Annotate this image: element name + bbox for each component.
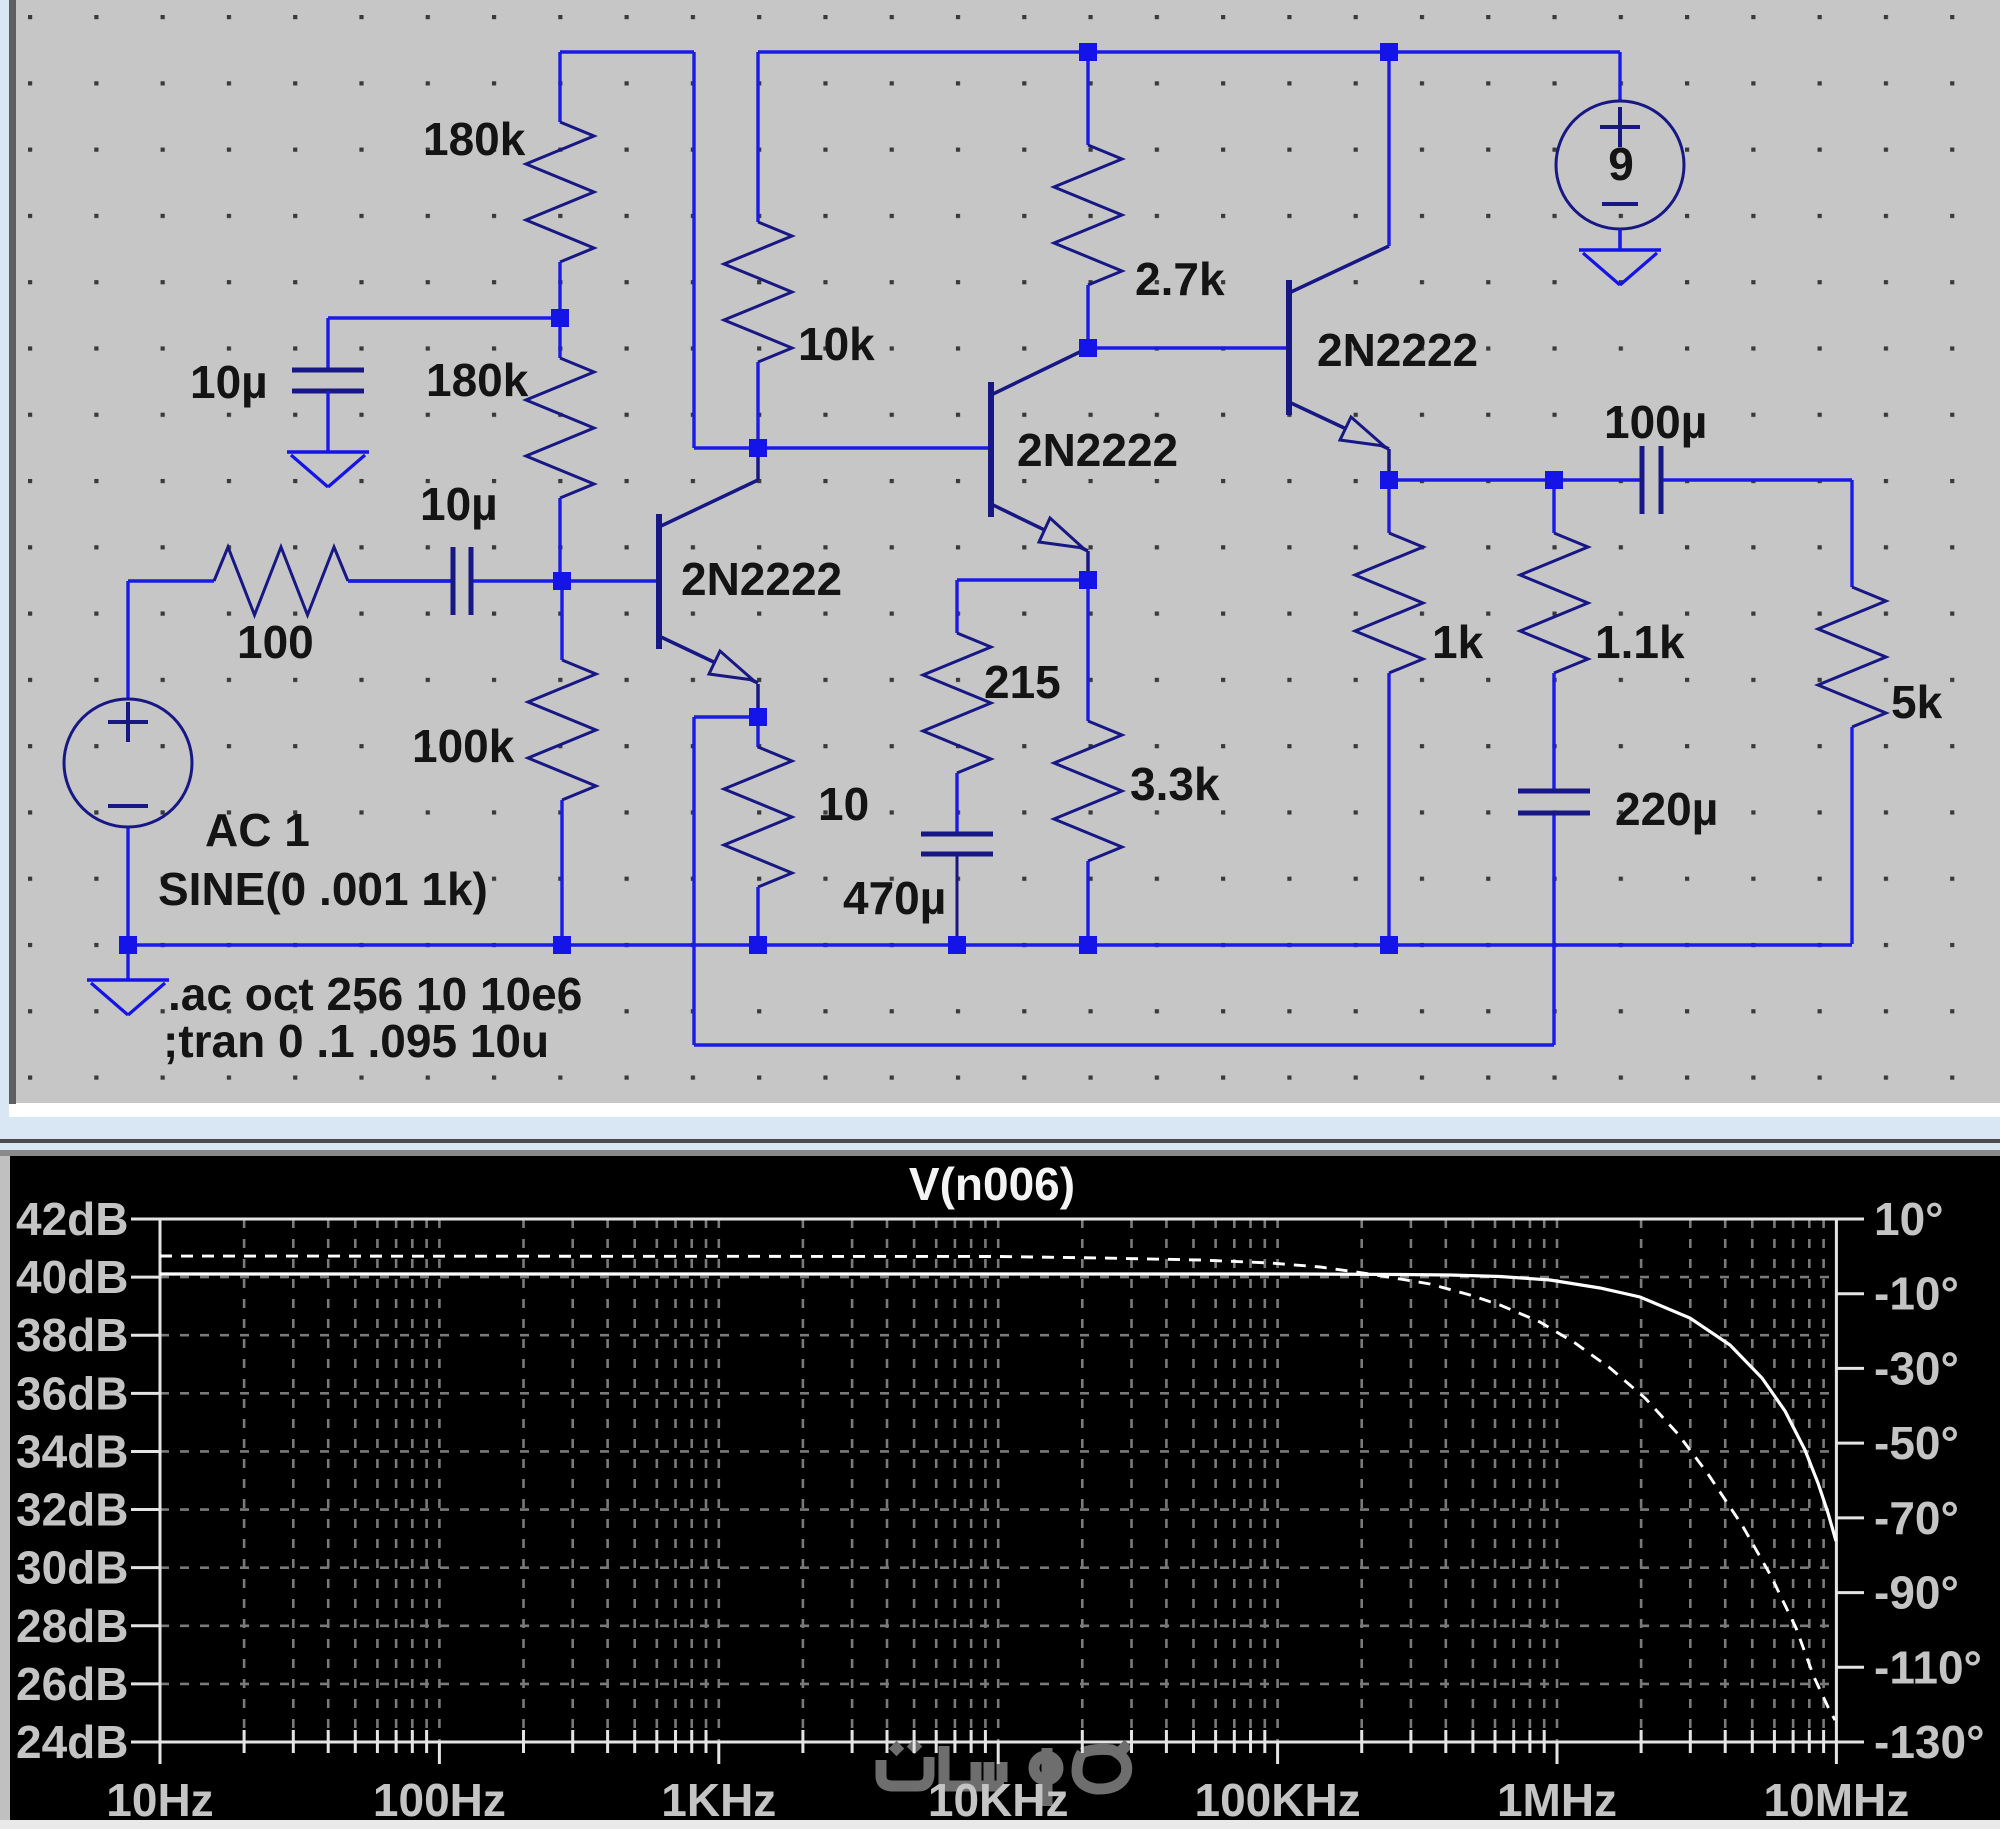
node Q1 base input — [553, 572, 571, 590]
svg-text:30dB: 30dB — [16, 1542, 128, 1594]
capacitor C3 470u — [921, 833, 993, 944]
watermark — [881, 1739, 1132, 1806]
node 180k junction — [551, 309, 569, 327]
svg-text:10k: 10k — [798, 318, 875, 370]
svg-text:24dB: 24dB — [16, 1716, 128, 1768]
wire Q2 emitter row — [957, 578, 1088, 581]
wire Q1 emitter to feedback — [694, 715, 758, 718]
plot border — [160, 1219, 1836, 1742]
voltage source V2 (9V) — [1556, 101, 1684, 229]
resistor R12 5k — [1818, 587, 1886, 944]
capacitor C2 10u (input) — [451, 547, 473, 615]
node output Q3 emitter — [1380, 471, 1398, 489]
node gnd 470u — [948, 936, 966, 954]
svg-text:10°: 10° — [1874, 1193, 1944, 1245]
svg-text:-30°: -30° — [1874, 1342, 1959, 1394]
svg-text:180k: 180k — [423, 113, 526, 165]
svg-text:1.1k: 1.1k — [1595, 616, 1685, 668]
svg-text:1KHz: 1KHz — [661, 1774, 776, 1826]
svg-text:180k: 180k — [426, 354, 529, 406]
svg-text:2N2222: 2N2222 — [1317, 324, 1478, 376]
svg-text:SINE(0 .001 1k): SINE(0 .001 1k) — [158, 863, 488, 915]
phase curve (dashed) — [160, 1256, 1835, 1720]
svg-text:AC 1: AC 1 — [205, 804, 310, 856]
svg-text:100µ: 100µ — [1604, 396, 1707, 448]
svg-text:10µ: 10µ — [420, 478, 498, 530]
svg-text:32dB: 32dB — [16, 1484, 128, 1536]
wire 9V supply stub — [1618, 52, 1621, 101]
node gnd 3.3k — [1079, 936, 1097, 954]
resistor R3 100k — [528, 581, 596, 944]
wire output node row — [1389, 478, 1640, 481]
ground (source) — [87, 945, 169, 1015]
svg-text:40dB: 40dB — [16, 1251, 128, 1303]
svg-text:10KHz: 10KHz — [928, 1774, 1069, 1826]
window left border — [0, 0, 9, 1150]
svg-text:100: 100 — [237, 616, 314, 668]
node gnd 1k — [1380, 936, 1398, 954]
svg-text:100Hz: 100Hz — [373, 1774, 506, 1826]
svg-text:9: 9 — [1608, 138, 1634, 190]
feedback wire riser x=1554 — [1552, 815, 1555, 1045]
wire Q1/Q2 base rail y=448 — [694, 446, 988, 449]
ground rail — [128, 943, 1852, 946]
resistor R2 180k (lower) — [526, 318, 594, 581]
capacitor C4 220u — [1518, 790, 1590, 815]
wire Q2C to Q3B — [1088, 346, 1289, 349]
svg-text:2N2222: 2N2222 — [1017, 424, 1178, 476]
node output 1.1k — [1545, 471, 1563, 489]
svg-text:38dB: 38dB — [16, 1309, 128, 1361]
wire jog down x=694 — [692, 52, 695, 448]
svg-text:-10°: -10° — [1874, 1268, 1959, 1320]
resistor R1 180k (top) — [526, 52, 594, 318]
svg-text:3.3k: 3.3k — [1130, 758, 1220, 810]
svg-text:-90°: -90° — [1874, 1567, 1959, 1619]
svg-text:1k: 1k — [1432, 616, 1484, 668]
svg-text:10MHz: 10MHz — [1764, 1774, 1910, 1826]
wire C-in to Q1 base — [473, 579, 657, 582]
wire source to R100 — [128, 579, 214, 582]
node Q2 emitter — [1079, 571, 1097, 589]
schematic canvas background — [0, 0, 2000, 1103]
node Q2 collector — [1079, 339, 1097, 357]
plot gridlines — [160, 1219, 1836, 1742]
svg-text:V(n006): V(n006) — [909, 1158, 1075, 1210]
svg-text:10Hz: 10Hz — [106, 1774, 213, 1826]
svg-text:100KHz: 100KHz — [1194, 1774, 1360, 1826]
svg-text:10: 10 — [818, 778, 869, 830]
svg-text:220µ: 220µ — [1615, 783, 1718, 835]
svg-text:-130°: -130° — [1874, 1716, 1984, 1768]
plot black background — [10, 1156, 2000, 1820]
node gnd source — [119, 936, 137, 954]
svg-text:470µ: 470µ — [843, 872, 946, 924]
transistor Q3 2N2222 — [1289, 246, 1389, 449]
node gnd 100k — [553, 936, 571, 954]
svg-text:2.7k: 2.7k — [1135, 253, 1225, 305]
plot window frame — [0, 1150, 2000, 1829]
svg-text:.ac oct 256 10 10e6: .ac oct 256 10 10e6 — [168, 968, 582, 1020]
wire top supply rail — [758, 50, 1620, 53]
svg-text:28dB: 28dB — [16, 1600, 128, 1652]
ground (bypass cap) — [287, 391, 369, 487]
resistor R7 215 — [923, 580, 991, 833]
node gnd 10 — [749, 936, 767, 954]
svg-text:42dB: 42dB — [16, 1193, 128, 1245]
resistor R4 100 (input) — [214, 547, 451, 615]
wire top-left from R1 to jog — [560, 50, 694, 53]
transistor Q2 2N2222 — [991, 348, 1088, 551]
svg-text:-110°: -110° — [1874, 1641, 1982, 1693]
window bottom chrome — [9, 1104, 2000, 1117]
resistor R11 1.1k — [1520, 480, 1588, 790]
svg-text:;tran 0 .1 .095 10u: ;tran 0 .1 .095 10u — [163, 1015, 549, 1067]
feedback wire bottom — [694, 1043, 1554, 1046]
node supply 2.7k — [1079, 43, 1097, 61]
node Q1 emitter — [749, 708, 767, 726]
magnitude curve (solid) — [160, 1274, 1836, 1541]
svg-text:1MHz: 1MHz — [1497, 1774, 1617, 1826]
svg-text:2N2222: 2N2222 — [681, 553, 842, 605]
capacitor C1 10u (bypass) — [292, 368, 364, 452]
resistor R8 3.3k — [1054, 580, 1122, 944]
resistor R10 1k — [1355, 480, 1423, 944]
svg-text:34dB: 34dB — [16, 1425, 128, 1477]
transistor Q1 2N2222 — [659, 480, 758, 683]
svg-text:215: 215 — [984, 656, 1061, 708]
voltage source V1 (AC) — [64, 699, 192, 827]
wire R100 to C-in — [348, 579, 451, 582]
svg-text:-50°: -50° — [1874, 1417, 1959, 1469]
svg-text:36dB: 36dB — [16, 1367, 128, 1419]
ground (9V) — [1579, 229, 1661, 285]
right phase axis ticks and labels — [1836, 1193, 1984, 1768]
left dB axis ticks and labels — [16, 1193, 160, 1768]
resistor R5 10k — [724, 52, 792, 448]
resistor R6 10 — [724, 717, 792, 944]
svg-text:10µ: 10µ — [190, 356, 268, 408]
wire 5k top lead down — [1850, 480, 1853, 587]
node Q1 collector — [749, 439, 767, 457]
svg-text:26dB: 26dB — [16, 1658, 128, 1710]
bottom frequency axis ticks and labels — [106, 1730, 1909, 1826]
resistor R9 2.7k — [1054, 52, 1122, 348]
node supply Q3 — [1380, 43, 1398, 61]
svg-text:5k: 5k — [1891, 676, 1943, 728]
wire source vertical — [126, 581, 129, 699]
capacitor C5 100u — [1640, 446, 1663, 514]
svg-text:100k: 100k — [412, 720, 515, 772]
svg-text:-70°: -70° — [1874, 1492, 1959, 1544]
wire node to bypass cap — [328, 316, 560, 319]
